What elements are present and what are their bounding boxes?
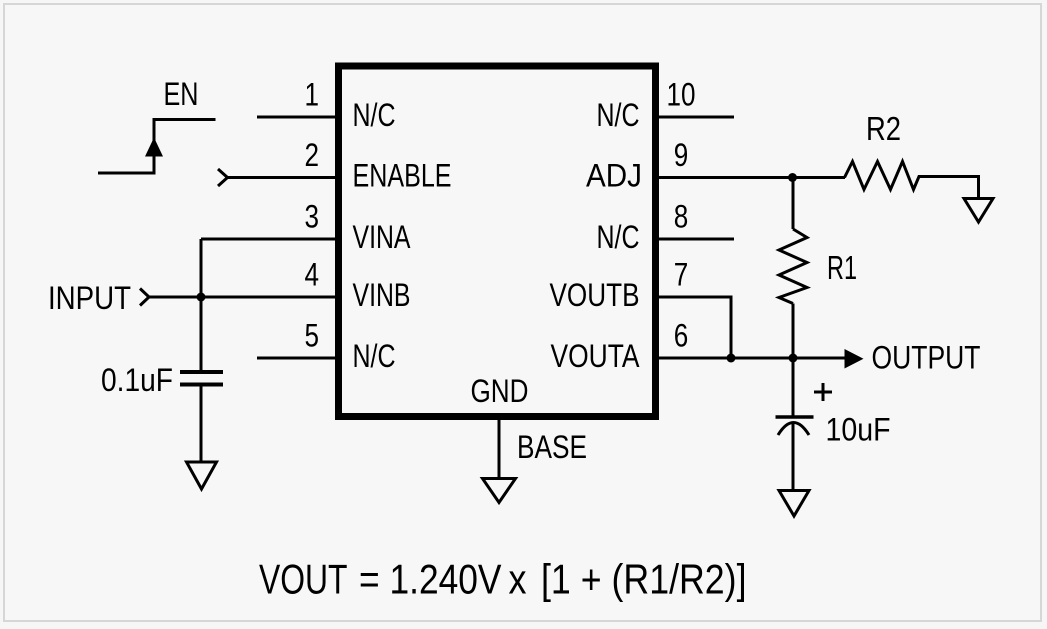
svg-text:N/C: N/C [597, 97, 640, 133]
svg-text:BASE: BASE [517, 429, 587, 465]
wire pin 1 [257, 116, 335, 119]
wire BASE pin [498, 420, 501, 478]
wire pin 2 [227, 176, 335, 179]
svg-text:x: x [509, 556, 527, 603]
capacitor C1 plates [180, 372, 223, 385]
svg-text:R2: R2 [866, 110, 901, 147]
OUTPUT arrow [845, 349, 864, 369]
svg-text:4: 4 [305, 257, 320, 293]
junction input node [197, 293, 206, 302]
svg-text:VOUT: VOUT [259, 556, 348, 603]
svg-text:[1 + (R1/R2)]: [1 + (R1/R2)] [541, 556, 747, 603]
svg-text:EN: EN [164, 76, 199, 112]
wire pin 8 [659, 238, 734, 241]
capacitor C2 curved plate [778, 423, 809, 436]
wire pin 5 [257, 357, 335, 360]
wire R1 to output row [792, 304, 795, 359]
svg-text:ENABLE: ENABLE [353, 158, 452, 194]
svg-text:N/C: N/C [353, 97, 396, 133]
svg-text:N/C: N/C [597, 219, 640, 255]
svg-text:0.1uF: 0.1uF [101, 362, 173, 398]
svg-text:6: 6 [674, 318, 689, 354]
capacitor C2 top plate [776, 415, 814, 419]
svg-text:3: 3 [305, 199, 320, 235]
wire pin 9 ADJ [659, 176, 845, 179]
svg-text:10uF: 10uF [826, 412, 891, 448]
wire pin 3 [201, 238, 335, 241]
svg-text:8: 8 [674, 199, 689, 235]
wire EN waveform [98, 120, 216, 174]
resistor R2 [845, 162, 979, 200]
svg-text:= 1.240V: = 1.240V [359, 556, 502, 603]
wire pin 7 with bend [659, 297, 731, 358]
svg-text:10: 10 [667, 77, 696, 113]
wire pin 6 output row [659, 357, 846, 360]
svg-text:GND: GND [471, 373, 529, 409]
svg-text:VOUTB: VOUTB [550, 277, 640, 313]
wire input branch vertical [200, 239, 203, 372]
svg-text:OUTPUT: OUTPUT [872, 340, 981, 376]
svg-text:2: 2 [305, 137, 320, 173]
wire pin 4 [149, 296, 335, 299]
svg-text:9: 9 [674, 137, 689, 173]
ground below R2 [964, 199, 993, 223]
svg-text:R1: R1 [827, 249, 857, 286]
resistor R1 [779, 229, 807, 304]
op-amp U1 (IC body LT3029) [339, 66, 656, 417]
svg-text:VINB: VINB [353, 277, 411, 313]
wire C1 to ground [200, 386, 203, 462]
wire pin 10 [659, 116, 734, 119]
svg-text:INPUT: INPUT [48, 280, 131, 316]
junction ADJ node [788, 173, 797, 182]
svg-text:7: 7 [674, 257, 689, 293]
EN rising-edge arrow [145, 138, 163, 157]
ground below BASE [483, 479, 516, 503]
junction output node [789, 354, 798, 363]
INPUT chevron [140, 289, 149, 306]
ground below C2 [779, 491, 809, 517]
svg-text:ADJ: ADJ [586, 158, 642, 194]
wire output node to C2 [792, 358, 795, 416]
capacitor C2 polarity + [814, 383, 832, 401]
svg-text:N/C: N/C [353, 338, 396, 374]
svg-text:5: 5 [305, 318, 320, 354]
svg-text:VOUTA: VOUTA [551, 338, 641, 374]
junction pin7/pin6 [727, 354, 736, 363]
svg-text:1: 1 [305, 77, 320, 113]
ground below C1 [187, 462, 217, 489]
svg-text:VINA: VINA [353, 219, 412, 255]
wire ADJ to R1 [792, 178, 795, 230]
pin 2 input chevron [218, 169, 228, 186]
wire C2 to ground [792, 424, 795, 490]
